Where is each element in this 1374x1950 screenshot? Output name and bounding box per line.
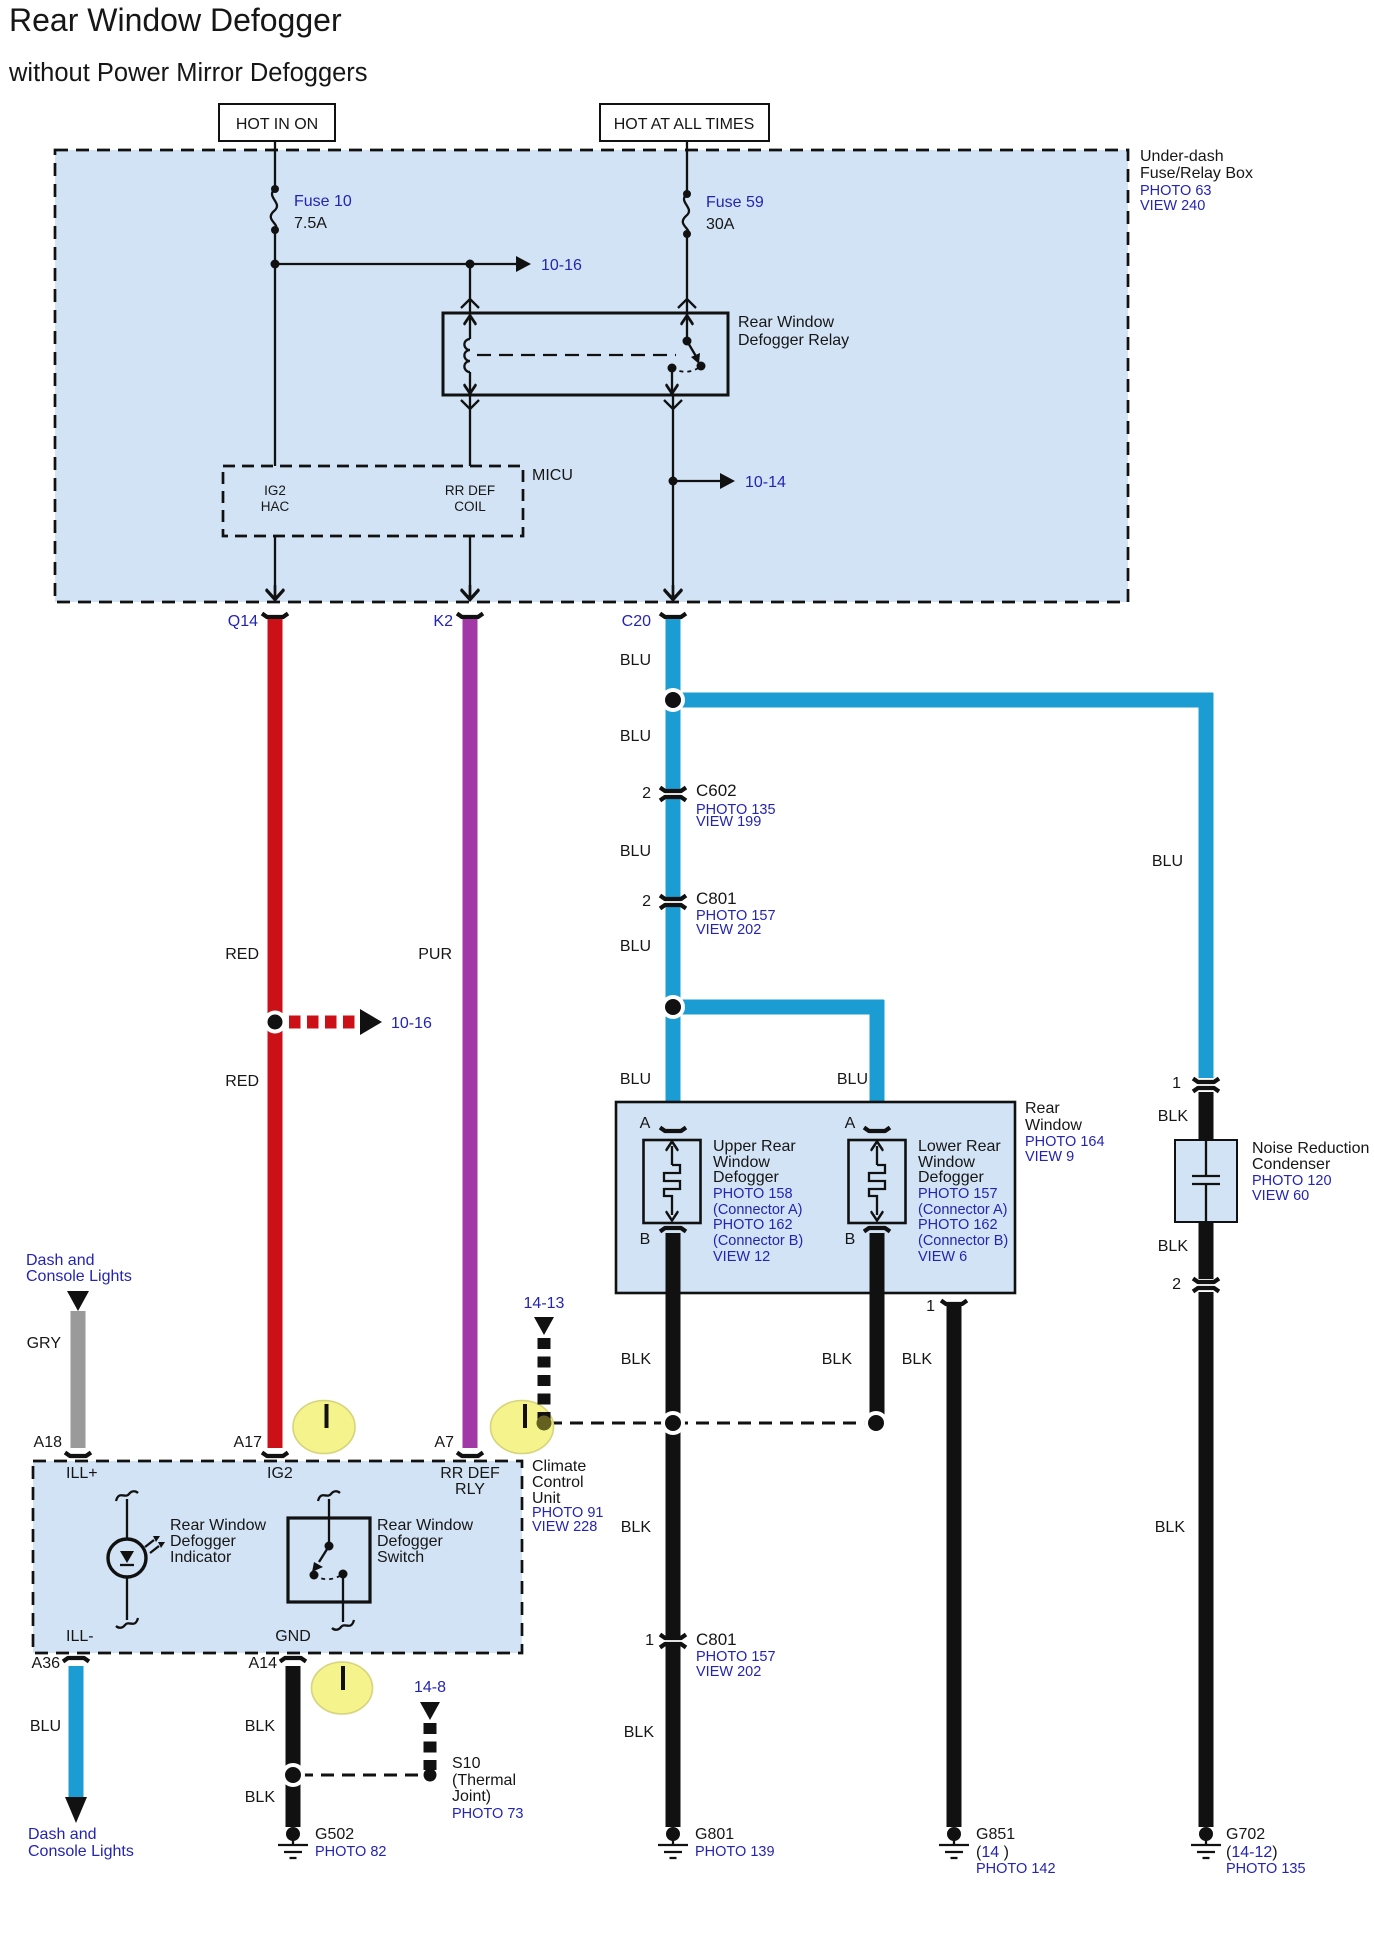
Rear Window Defogger Relay bbox=[443, 313, 849, 395]
ground G502 bbox=[278, 1826, 386, 1860]
svg-text:BLK: BLK bbox=[245, 1718, 276, 1735]
svg-text:Indicator: Indicator bbox=[170, 1549, 232, 1566]
svg-text:A14: A14 bbox=[249, 1655, 278, 1672]
relay coil bbox=[464, 315, 476, 394]
svg-text:PHOTO 157: PHOTO 157 bbox=[696, 1649, 776, 1665]
connector C801 lower bbox=[645, 1630, 775, 1680]
svg-text:VIEW 240: VIEW 240 bbox=[1140, 198, 1205, 214]
splice symbol below GND bbox=[312, 1662, 373, 1714]
fuse F59 bbox=[683, 190, 764, 238]
connector A17 bbox=[234, 1434, 288, 1456]
svg-text:without Power Mirror Defoggers: without Power Mirror Defoggers bbox=[8, 59, 368, 87]
svg-text:VIEW 202: VIEW 202 bbox=[696, 1664, 761, 1680]
svg-text:Q14: Q14 bbox=[228, 613, 258, 630]
wire: coil feed into relay bbox=[469, 264, 471, 313]
svg-text:BLU: BLU bbox=[620, 728, 651, 745]
svg-text:Upper Rear: Upper Rear bbox=[713, 1138, 796, 1155]
svg-text:GND: GND bbox=[275, 1628, 311, 1645]
arrow 14-13 ladder bbox=[524, 1295, 565, 1431]
svg-text:Lower Rear: Lower Rear bbox=[918, 1138, 1001, 1155]
svg-text:B: B bbox=[845, 1231, 856, 1248]
junction 2 on blue wire bbox=[661, 995, 685, 1019]
svg-text:G502: G502 bbox=[315, 1826, 354, 1843]
svg-text:BLK: BLK bbox=[621, 1519, 652, 1536]
svg-text:1: 1 bbox=[926, 1298, 935, 1315]
svg-text:BLU: BLU bbox=[620, 652, 651, 669]
connector 1 on right blue wire bbox=[1172, 1075, 1221, 1092]
svg-text:10-16: 10-16 bbox=[541, 257, 582, 274]
splice symbol near A17 bbox=[293, 1401, 355, 1454]
svg-text:1: 1 bbox=[645, 1632, 654, 1649]
svg-text:VIEW 6: VIEW 6 bbox=[918, 1249, 967, 1265]
svg-text:2: 2 bbox=[642, 785, 651, 802]
junction on blue wire bbox=[661, 688, 685, 712]
HOT IN ON box bbox=[219, 104, 335, 141]
relay connector chevrons bbox=[461, 299, 696, 409]
upper rear window defogger element bbox=[640, 1115, 804, 1265]
svg-text:Console Lights: Console Lights bbox=[26, 1268, 132, 1285]
svg-text:Condenser: Condenser bbox=[1252, 1156, 1331, 1173]
svg-text:RR DEF: RR DEF bbox=[445, 483, 495, 498]
wire: HOT IN ON feed bbox=[274, 141, 276, 466]
svg-text:(Connector B): (Connector B) bbox=[918, 1233, 1008, 1249]
wire BLU branch to lower defogger bbox=[620, 1000, 884, 1127]
svg-text:G702: G702 bbox=[1226, 1826, 1265, 1843]
lower rear window defogger element bbox=[845, 1115, 1009, 1265]
svg-text:C20: C20 bbox=[622, 613, 651, 630]
svg-text:Dash and: Dash and bbox=[26, 1252, 95, 1269]
svg-text:C801: C801 bbox=[696, 1630, 737, 1649]
svg-text:Joint): Joint) bbox=[452, 1788, 491, 1805]
svg-text:PHOTO 63: PHOTO 63 bbox=[1140, 183, 1211, 199]
svg-text:BLK: BLK bbox=[822, 1351, 853, 1368]
splice symbol left of climate line bbox=[491, 1401, 554, 1454]
svg-text:RR DEF: RR DEF bbox=[440, 1465, 500, 1482]
svg-text:Defogger: Defogger bbox=[918, 1169, 984, 1186]
connector A7 bbox=[434, 1434, 483, 1456]
svg-text:Fuse 10: Fuse 10 bbox=[294, 193, 352, 210]
svg-text:C602: C602 bbox=[696, 781, 737, 800]
connector A14 bbox=[249, 1655, 306, 1672]
svg-text:BLU: BLU bbox=[837, 1071, 868, 1088]
svg-text:(Connector A): (Connector A) bbox=[713, 1202, 802, 1218]
connector A18 bbox=[34, 1434, 91, 1456]
svg-text:PHOTO 73: PHOTO 73 bbox=[452, 1806, 523, 1822]
svg-text:Rear Window: Rear Window bbox=[738, 314, 834, 331]
svg-text:Switch: Switch bbox=[377, 1549, 424, 1566]
relay switch bbox=[666, 315, 706, 394]
HOT AT ALL TIMES box bbox=[600, 104, 769, 141]
svg-text:(Connector B): (Connector B) bbox=[713, 1233, 803, 1249]
wire BLK lower defogger B to splice row bbox=[822, 1233, 877, 1423]
svg-text:(Connector A): (Connector A) bbox=[918, 1202, 1007, 1218]
svg-text:10-14: 10-14 bbox=[745, 474, 786, 491]
svg-text:PHOTO 142: PHOTO 142 bbox=[976, 1861, 1056, 1877]
svg-text:2: 2 bbox=[642, 893, 651, 910]
ground G801 bbox=[658, 1826, 775, 1860]
connector 2 on right black wire bbox=[1172, 1276, 1221, 1293]
svg-text:IG2: IG2 bbox=[264, 483, 286, 498]
svg-text:A17: A17 bbox=[234, 1434, 263, 1451]
svg-text:Control: Control bbox=[532, 1474, 584, 1491]
svg-text:Noise Reduction: Noise Reduction bbox=[1252, 1140, 1369, 1157]
ground G702 bbox=[1191, 1826, 1306, 1877]
svg-text:Fuse 59: Fuse 59 bbox=[706, 194, 764, 211]
svg-text:10-16: 10-16 bbox=[391, 1015, 432, 1032]
svg-text:S10: S10 bbox=[452, 1755, 481, 1772]
svg-text:BLK: BLK bbox=[245, 1789, 276, 1806]
svg-text:2: 2 bbox=[1172, 1276, 1181, 1293]
wire BLU C20 down bbox=[620, 619, 673, 1127]
connector Q14 bbox=[228, 613, 288, 630]
svg-text:A7: A7 bbox=[434, 1434, 454, 1451]
junction dot on upper BLK wire bbox=[661, 1411, 685, 1435]
svg-text:VIEW 228: VIEW 228 bbox=[532, 1519, 597, 1535]
connector C801 upper bbox=[642, 889, 775, 938]
svg-text:BLK: BLK bbox=[902, 1351, 933, 1368]
svg-text:BLK: BLK bbox=[1158, 1108, 1189, 1125]
wire: 10-14 branch bbox=[669, 473, 787, 491]
wire: RR DEF COIL out bbox=[461, 536, 479, 600]
svg-text:Fuse/Relay Box: Fuse/Relay Box bbox=[1140, 165, 1253, 182]
svg-text:PHOTO 157: PHOTO 157 bbox=[918, 1186, 998, 1202]
wire BLU branch to noise condenser bbox=[673, 693, 1213, 1078]
svg-text:Climate: Climate bbox=[532, 1458, 586, 1475]
svg-text:Under-dash: Under-dash bbox=[1140, 148, 1224, 165]
svg-text:PHOTO 164: PHOTO 164 bbox=[1025, 1134, 1105, 1150]
svg-text:A36: A36 bbox=[32, 1655, 61, 1672]
wire: C20 out arrow bbox=[664, 585, 682, 600]
wire: relay switch out bbox=[672, 395, 674, 598]
svg-text:(14 ): (14 ) bbox=[976, 1844, 1009, 1861]
svg-text:(14-12): (14-12) bbox=[1226, 1844, 1278, 1861]
svg-text:A18: A18 bbox=[34, 1434, 63, 1451]
svg-text:PHOTO 162: PHOTO 162 bbox=[918, 1217, 998, 1233]
Under-dash Fuse/Relay Box bbox=[55, 148, 1253, 602]
svg-text:Defogger: Defogger bbox=[713, 1169, 779, 1186]
wire: HOT AT ALL TIMES feed bbox=[686, 141, 688, 313]
thermal joint S10 ladder bbox=[300, 1679, 523, 1822]
svg-text:Dash and: Dash and bbox=[28, 1826, 97, 1843]
svg-text:14-13: 14-13 bbox=[524, 1295, 565, 1312]
svg-text:7.5A: 7.5A bbox=[294, 215, 327, 232]
connector C602 bbox=[642, 781, 775, 830]
svg-text:1: 1 bbox=[1172, 1075, 1181, 1092]
svg-text:BLK: BLK bbox=[621, 1351, 652, 1368]
svg-text:BLU: BLU bbox=[620, 1071, 651, 1088]
svg-text:Window: Window bbox=[1025, 1117, 1082, 1134]
svg-text:G851: G851 bbox=[976, 1826, 1015, 1843]
Climate Control Unit box bbox=[33, 1461, 522, 1653]
svg-text:RLY: RLY bbox=[455, 1481, 485, 1498]
Climate Control Unit label bbox=[532, 1458, 603, 1535]
wire BLK condenser to G702 bbox=[1155, 1222, 1206, 1827]
svg-text:Console Lights: Console Lights bbox=[28, 1843, 134, 1860]
svg-text:PHOTO 158: PHOTO 158 bbox=[713, 1186, 793, 1202]
wire BLK upper defogger B to G801 bbox=[621, 1233, 673, 1827]
svg-text:A: A bbox=[845, 1115, 856, 1132]
svg-text:G801: G801 bbox=[695, 1826, 734, 1843]
svg-text:IG2: IG2 bbox=[267, 1465, 293, 1482]
svg-text:HAC: HAC bbox=[261, 499, 290, 514]
svg-text:Defogger: Defogger bbox=[170, 1533, 236, 1550]
svg-text:BLU: BLU bbox=[620, 843, 651, 860]
svg-text:BLK: BLK bbox=[1155, 1519, 1186, 1536]
svg-text:VIEW 199: VIEW 199 bbox=[696, 814, 761, 830]
wire: IG2 HAC out bbox=[266, 536, 284, 600]
svg-text:VIEW 60: VIEW 60 bbox=[1252, 1188, 1309, 1204]
svg-text:B: B bbox=[640, 1231, 651, 1248]
svg-text:Rear Window: Rear Window bbox=[170, 1517, 266, 1534]
svg-text:Rear Window Defogger: Rear Window Defogger bbox=[9, 2, 342, 38]
fuse F10 bbox=[271, 185, 352, 234]
svg-text:PHOTO 120: PHOTO 120 bbox=[1252, 1173, 1332, 1189]
ground G851 bbox=[939, 1826, 1056, 1877]
climate control dashed sense line bbox=[549, 1411, 888, 1435]
svg-text:(Thermal: (Thermal bbox=[452, 1772, 516, 1789]
wire PUR K2 to A7 bbox=[418, 619, 470, 1448]
svg-text:PHOTO 135: PHOTO 135 bbox=[1226, 1861, 1306, 1877]
svg-text:BLU: BLU bbox=[30, 1718, 61, 1735]
svg-text:RED: RED bbox=[225, 1073, 259, 1090]
svg-text:14-8: 14-8 bbox=[414, 1679, 446, 1696]
svg-text:A: A bbox=[640, 1115, 651, 1132]
svg-text:BLU: BLU bbox=[1152, 853, 1183, 870]
rear window defogger switch bbox=[288, 1491, 473, 1630]
wire: relay coil out to MICU bbox=[469, 395, 471, 466]
svg-text:MICU: MICU bbox=[532, 467, 573, 484]
relay internal dashed link bbox=[477, 354, 676, 356]
connector A36 bbox=[32, 1655, 89, 1672]
svg-text:Defogger: Defogger bbox=[377, 1533, 443, 1550]
svg-text:30A: 30A bbox=[706, 216, 735, 233]
connector K2 bbox=[433, 613, 483, 630]
svg-text:VIEW 202: VIEW 202 bbox=[696, 922, 761, 938]
svg-text:PUR: PUR bbox=[418, 946, 452, 963]
rear window defogger indicator bbox=[108, 1491, 266, 1628]
wire BLK rear window pin 1 to G851 bbox=[902, 1298, 967, 1827]
wire RED Q14 to A17 bbox=[225, 619, 275, 1448]
svg-text:Rear: Rear bbox=[1025, 1100, 1060, 1117]
svg-text:HOT IN ON: HOT IN ON bbox=[236, 116, 318, 133]
wire BLK into condenser bbox=[1158, 1092, 1206, 1140]
Noise Reduction Condenser bbox=[1175, 1140, 1369, 1222]
svg-text:ILL+: ILL+ bbox=[66, 1465, 98, 1482]
MICU box bbox=[223, 466, 573, 536]
svg-text:C801: C801 bbox=[696, 889, 737, 908]
svg-text:GRY: GRY bbox=[27, 1335, 62, 1352]
svg-text:K2: K2 bbox=[433, 613, 453, 630]
svg-text:PHOTO 82: PHOTO 82 bbox=[315, 1844, 386, 1860]
svg-text:VIEW 9: VIEW 9 bbox=[1025, 1149, 1074, 1165]
junction dot on A14 wire bbox=[281, 1763, 305, 1787]
svg-text:VIEW 12: VIEW 12 bbox=[713, 1249, 770, 1265]
connector C20 bbox=[622, 613, 686, 630]
svg-text:BLK: BLK bbox=[624, 1724, 655, 1741]
svg-text:BLU: BLU bbox=[620, 938, 651, 955]
svg-text:Rear Window: Rear Window bbox=[377, 1517, 473, 1534]
svg-text:PHOTO 139: PHOTO 139 bbox=[695, 1844, 775, 1860]
splice 10-16 on red wire bbox=[264, 1009, 433, 1035]
Rear Window box bbox=[616, 1100, 1105, 1293]
svg-text:RED: RED bbox=[225, 946, 259, 963]
svg-text:HOT AT ALL TIMES: HOT AT ALL TIMES bbox=[614, 116, 755, 133]
svg-text:PHOTO 162: PHOTO 162 bbox=[713, 1217, 793, 1233]
wire BLK A14 to G502 bbox=[245, 1666, 293, 1827]
wire: 10-16 branch row bbox=[271, 256, 583, 274]
title bbox=[8, 2, 368, 87]
svg-text:COIL: COIL bbox=[454, 499, 486, 514]
wire BLU ILL- to dash lights bbox=[28, 1666, 134, 1860]
svg-text:Defogger Relay: Defogger Relay bbox=[738, 332, 849, 349]
svg-text:BLK: BLK bbox=[1158, 1238, 1189, 1255]
svg-text:ILL-: ILL- bbox=[66, 1628, 94, 1645]
dash and console lights feed bbox=[26, 1252, 132, 1448]
